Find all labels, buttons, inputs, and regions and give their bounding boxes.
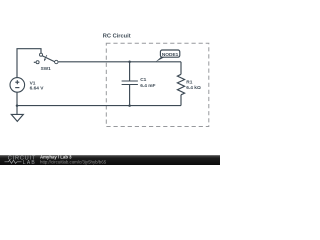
ground: [11, 106, 23, 122]
wire from switch to R1 corner (top rail): [58, 61, 181, 63]
footer bar: [0, 155, 220, 165]
svg-text:SW1: SW1: [41, 66, 52, 71]
label V1 value: [30, 80, 45, 91]
junction dot at V1 bottom: [16, 104, 19, 107]
switch SW1: [34, 53, 58, 64]
junction dot at C1 top: [128, 61, 131, 64]
svg-text:C1: C1: [140, 77, 146, 83]
footer title text: [40, 155, 72, 160]
svg-text:LAB: LAB: [23, 160, 36, 165]
dashed RC Circuit enclosure box: [106, 43, 209, 126]
bottom wire rail: [17, 105, 181, 107]
resistor R1: [177, 62, 184, 106]
svg-text:http://circuitlab.com/c/3jy5hy: http://circuitlab.com/c/3jy5hyb/b65: [40, 159, 107, 164]
svg-text:NODE1: NODE1: [162, 52, 179, 58]
svg-text:6.64 V: 6.64 V: [30, 85, 45, 91]
label C1 value: [140, 77, 155, 89]
svg-text:6.4 kΩ: 6.4 kΩ: [186, 85, 201, 91]
svg-text:RC Circuit: RC Circuit: [103, 33, 131, 39]
footer url text: [40, 159, 107, 164]
label SW1: [41, 66, 52, 71]
junction dot at C1 bottom: [128, 104, 131, 107]
wire from V1 top up and right to switch: [17, 49, 41, 78]
label RC Circuit: [103, 33, 131, 39]
capacitor C1: [122, 62, 138, 106]
voltage source V1: [10, 78, 25, 106]
footer CircuitLab logo: [5, 156, 37, 166]
label R1 value: [186, 79, 201, 91]
node NODE1 callout: [155, 50, 179, 62]
svg-text:6.4 mF: 6.4 mF: [140, 83, 155, 89]
svg-text:R1: R1: [186, 79, 192, 85]
